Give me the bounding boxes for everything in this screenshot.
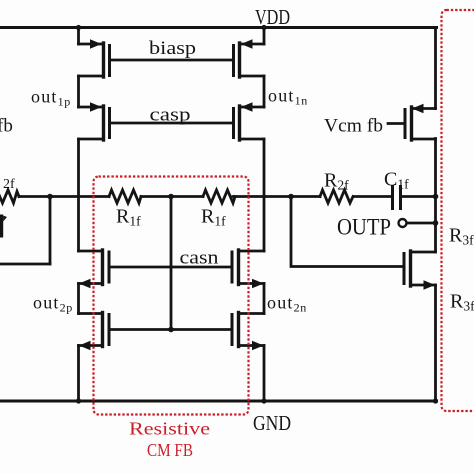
svg-text:out2p: out2p — [33, 293, 73, 315]
wire: casp gate net — [110, 122, 234, 125]
node: VDD right junction — [261, 25, 266, 30]
wire: main line between R2f and C1f — [354, 195, 392, 198]
transistor NMOS bottom left — [79, 312, 103, 315]
svg-text:out2n: out2n — [267, 293, 307, 315]
node: OUTP junction — [433, 220, 439, 226]
svg-text:R3f: R3f — [450, 291, 474, 314]
wire: input node horizontal to left edge — [0, 263, 50, 266]
wire: out2n jog — [263, 284, 266, 314]
wire: main line between R1f resistors — [141, 195, 203, 198]
node: output gate junction — [288, 194, 294, 200]
svg-text:R3f: R3f — [449, 225, 474, 248]
red dashed box: Resistive CM FB — [94, 177, 249, 415]
resistor R1f (left) — [109, 190, 141, 203]
svg-text:2f: 2f — [3, 177, 15, 192]
OUTP terminal — [399, 219, 407, 227]
node: bottom gate tap — [168, 327, 174, 333]
svg-text:fb: fb — [0, 116, 13, 137]
wire: left branch down to main line — [77, 139, 80, 251]
svg-text:R1f: R1f — [116, 206, 141, 229]
svg-text:Resistive: Resistive — [129, 419, 210, 439]
wire: casn gate net — [109, 266, 232, 269]
fragment of cut text IN — [0, 215, 3, 238]
node: GND junctions — [76, 398, 81, 403]
wire: output gate takeoff — [291, 197, 404, 267]
transistor PMOS biasp right: source — [242, 43, 265, 46]
transistor PMOS casp left — [79, 106, 102, 109]
svg-text:biasp: biasp — [149, 38, 196, 59]
wire: out1p jog — [77, 76, 80, 107]
transistor PMOS biasp left: source — [79, 43, 102, 46]
wire: out2p jog — [77, 284, 80, 314]
wire: output drain vertical — [434, 139, 437, 253]
svg-text:out1p: out1p — [31, 87, 71, 109]
GND rail — [0, 400, 437, 403]
resistor R2f (right) — [320, 190, 353, 203]
wire: main horizontal node line left segment — [19, 195, 109, 198]
wire: left branch vertical VDD to M1 — [77, 28, 80, 45]
transistor NMOS bottom right — [239, 312, 265, 315]
svg-text:CM FB: CM FB — [147, 440, 193, 460]
wire: bottom NMOS gate net — [109, 328, 232, 331]
transistor PMOS casp right — [242, 106, 265, 109]
node: VDD left junction — [76, 25, 81, 30]
svg-text:GND: GND — [253, 411, 291, 435]
wire: right branch down across main line — [263, 139, 266, 251]
capacitor C1f — [391, 187, 394, 209]
wire: right branch vertical VDD to M — [263, 28, 266, 45]
svg-text:R1f: R1f — [201, 206, 226, 229]
wire: input node vertical from junction — [49, 197, 52, 265]
resistor R2f (left, cut at edge) — [0, 190, 19, 203]
wire: CMFB center tap vertical — [170, 197, 173, 330]
node: C1f junction — [433, 194, 439, 200]
VDD rail — [0, 26, 437, 29]
svg-text:Vcm fb: Vcm fb — [324, 116, 383, 137]
red dashed box: R3f network (cut at right) — [442, 10, 474, 411]
svg-text:OUTP: OUTP — [337, 215, 391, 241]
transistor PMOS Vcm fb — [388, 122, 405, 125]
transistor NMOS output — [403, 254, 406, 284]
resistor R1f (right) — [203, 190, 235, 203]
wire: output source to GND — [434, 285, 437, 401]
wire: right branch to GND — [263, 346, 266, 402]
wire: VDD to Vcm source — [434, 28, 437, 109]
svg-text:R2f: R2f — [324, 170, 349, 193]
svg-text:casp: casp — [150, 105, 191, 126]
node: input junction — [47, 194, 53, 200]
svg-text:VDD: VDD — [255, 5, 290, 29]
svg-text:C1f: C1f — [384, 169, 409, 192]
wire: out1n jog — [263, 76, 266, 107]
svg-text:out1n: out1n — [268, 86, 308, 108]
svg-text:casn: casn — [180, 248, 220, 269]
wire: C1f to OUTP vertical — [401, 195, 436, 198]
wire: main line right of second R1f — [233, 195, 320, 198]
transistor NMOS casn left — [79, 250, 103, 253]
transistor NMOS casn right — [239, 250, 265, 253]
node: CMFB center tap — [168, 194, 174, 200]
wire: biasp gate net — [110, 59, 234, 62]
wire: left branch to GND — [77, 346, 80, 402]
